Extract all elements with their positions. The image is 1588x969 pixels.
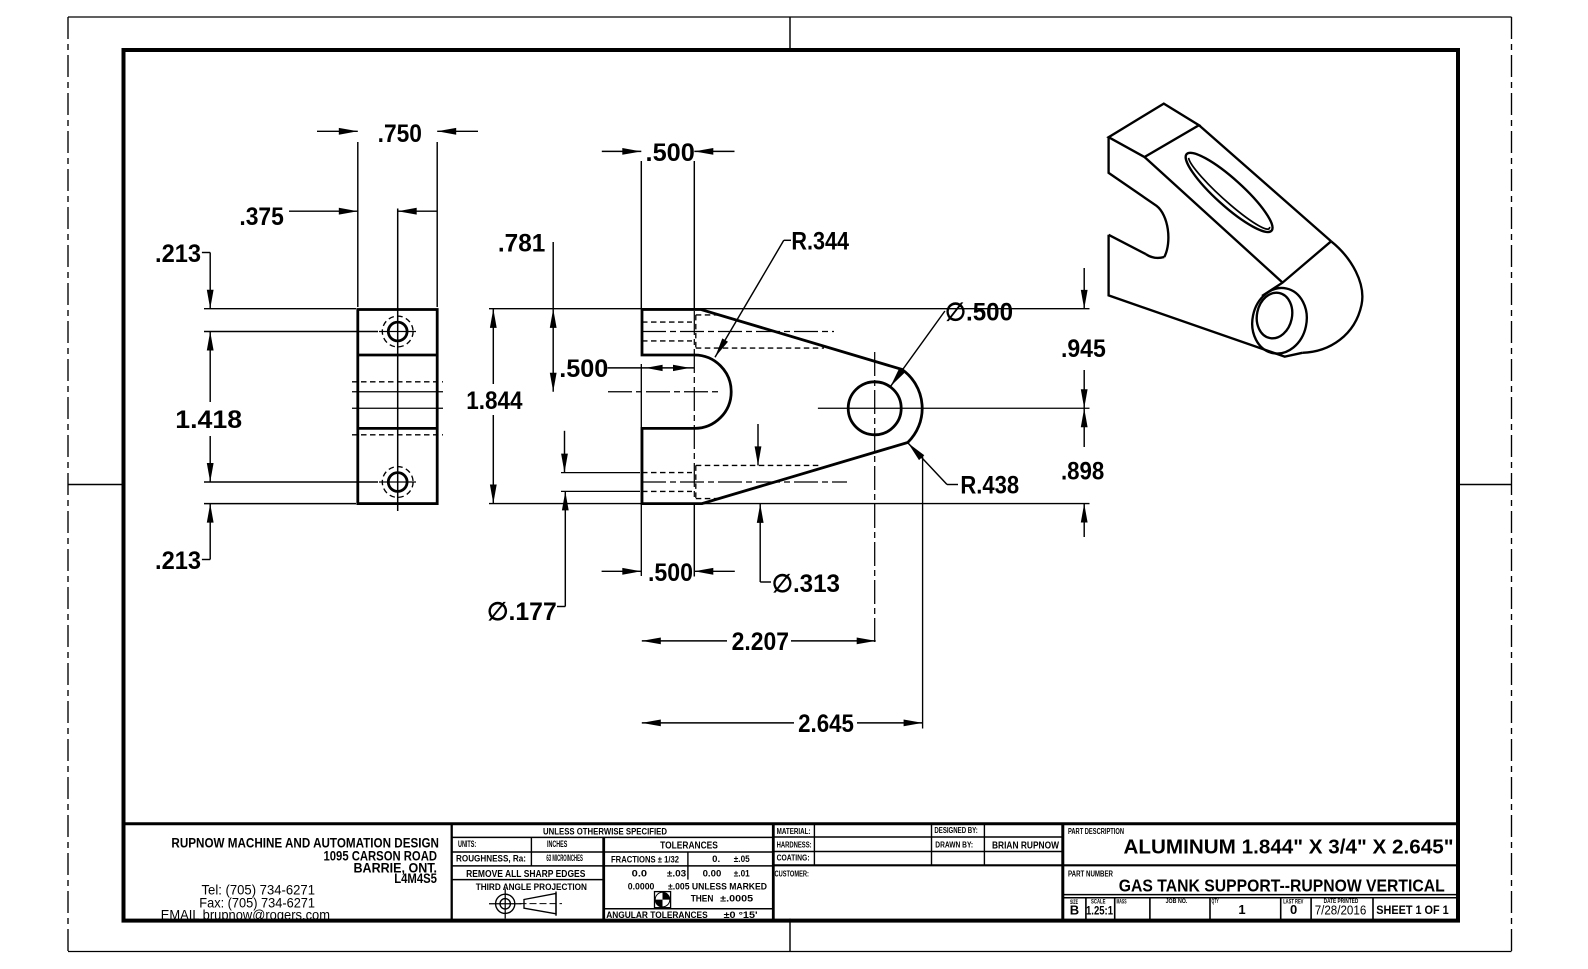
svg-text:.500: .500: [559, 355, 608, 383]
svg-text:UNLESS OTHERWISE SPECIFIED: UNLESS OTHERWISE SPECIFIED: [543, 826, 667, 837]
svg-text:INCHES: INCHES: [547, 839, 567, 849]
svg-text:2.645: 2.645: [798, 710, 854, 738]
svg-text:0.0000: 0.0000: [628, 882, 655, 892]
svg-text:1.25:1: 1.25:1: [1086, 906, 1113, 918]
svg-text:FRACTIONS ± 1/32: FRACTIONS ± 1/32: [611, 855, 679, 865]
svg-text:REMOVE ALL SHARP EDGES: REMOVE ALL SHARP EDGES: [466, 869, 586, 880]
svg-text:.500: .500: [648, 559, 693, 587]
svg-text:0.: 0.: [712, 854, 720, 864]
svg-text:JOB NO.: JOB NO.: [1166, 899, 1188, 905]
svg-text:∅.177: ∅.177: [487, 598, 557, 626]
svg-text:0: 0: [1290, 902, 1297, 917]
svg-text:COATING:: COATING:: [777, 854, 810, 863]
svg-text:∅.500: ∅.500: [945, 299, 1013, 327]
svg-text:HARDNESS:: HARDNESS:: [777, 840, 812, 849]
svg-text:0.00: 0.00: [703, 868, 722, 878]
svg-text:ANGULAR TOLERANCES: ANGULAR TOLERANCES: [606, 910, 708, 920]
svg-text:7/28/2016: 7/28/2016: [1315, 903, 1367, 918]
svg-text:CUSTOMER:: CUSTOMER:: [775, 870, 809, 879]
svg-text:1.418: 1.418: [175, 406, 242, 434]
svg-text:.213: .213: [155, 547, 201, 575]
svg-text:ALUMINUM 1.844" X 3/4" X 2.645: ALUMINUM 1.844" X 3/4" X 2.645": [1124, 837, 1454, 859]
svg-text:TOLERANCES: TOLERANCES: [660, 841, 718, 852]
svg-text:.500: .500: [646, 139, 695, 167]
svg-text:DRAWN BY:: DRAWN BY:: [935, 840, 973, 849]
svg-text:±.01: ±.01: [734, 868, 750, 878]
svg-text:B: B: [1070, 903, 1079, 918]
svg-text:.781: .781: [498, 230, 545, 258]
svg-text:.945: .945: [1061, 335, 1106, 363]
svg-text:±.005 UNLESS MARKED: ±.005 UNLESS MARKED: [668, 882, 767, 892]
svg-text:∅.313: ∅.313: [772, 570, 840, 598]
svg-text:0.0: 0.0: [632, 868, 647, 878]
svg-text:±.0005: ±.0005: [720, 894, 753, 904]
svg-text:1: 1: [1238, 902, 1245, 917]
svg-text:QTY: QTY: [1212, 899, 1219, 905]
svg-text:R.344: R.344: [791, 228, 849, 256]
svg-text:.898: .898: [1061, 458, 1104, 486]
svg-text:PART DESCRIPTION: PART DESCRIPTION: [1068, 827, 1124, 836]
svg-text:PART NUMBER: PART NUMBER: [1068, 870, 1113, 879]
svg-text:MATERIAL:: MATERIAL:: [777, 827, 811, 836]
svg-text:±.03: ±.03: [667, 868, 686, 878]
svg-text:L4M4S5: L4M4S5: [394, 871, 437, 886]
svg-text:±0 °15': ±0 °15': [724, 910, 758, 920]
svg-text:EMAIL brupnow@rogers.com: EMAIL brupnow@rogers.com: [161, 907, 330, 923]
svg-text:THIRD ANGLE PROJECTION: THIRD ANGLE PROJECTION: [476, 882, 587, 893]
svg-text:2.207: 2.207: [732, 628, 789, 656]
svg-text:GAS TANK SUPPORT--RUPNOW VERTI: GAS TANK SUPPORT--RUPNOW VERTICAL: [1119, 876, 1445, 896]
svg-text:UNITS:: UNITS:: [458, 839, 476, 849]
svg-text:±.05: ±.05: [734, 854, 750, 864]
svg-text:63 MICROINCHES: 63 MICROINCHES: [546, 853, 582, 863]
svg-text:DESIGNED BY:: DESIGNED BY:: [934, 826, 977, 835]
svg-text:.213: .213: [155, 240, 201, 268]
svg-text:.750: .750: [378, 120, 422, 148]
svg-text:SHEET 1 OF 1: SHEET 1 OF 1: [1376, 903, 1449, 917]
svg-text:.375: .375: [239, 203, 284, 231]
svg-text:1.844: 1.844: [466, 387, 522, 415]
svg-text:R.438: R.438: [960, 472, 1019, 500]
svg-text:THEN: THEN: [691, 894, 714, 904]
svg-text:ROUGHNESS, Ra:: ROUGHNESS, Ra:: [456, 854, 526, 864]
svg-text:MASS: MASS: [1117, 900, 1127, 906]
svg-text:BRIAN RUPNOW: BRIAN RUPNOW: [992, 839, 1059, 851]
